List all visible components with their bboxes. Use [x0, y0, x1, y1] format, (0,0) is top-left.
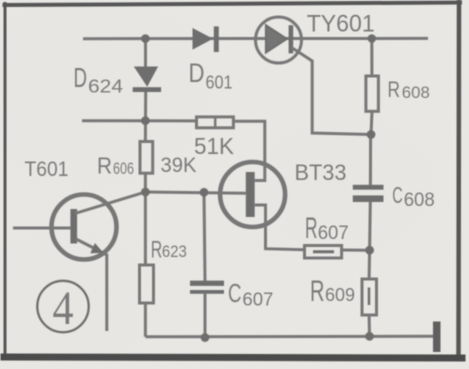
label R609 [310, 275, 355, 308]
figure number 4 [37, 281, 88, 335]
svg-text:C: C [228, 280, 242, 308]
svg-text:T601: T601 [25, 158, 69, 181]
label R608 [388, 77, 430, 102]
wire bottom rail [145, 335, 433, 339]
transistor T601 [13, 192, 145, 331]
resistor R608 [366, 39, 379, 135]
svg-text:606: 606 [113, 160, 134, 178]
resistor 51K [197, 117, 234, 128]
wire 51K to BT33 base2 [233, 121, 264, 180]
svg-text:R: R [388, 77, 401, 102]
capacitor C608 [353, 135, 384, 251]
resistor R606 [140, 121, 153, 192]
svg-text:624: 624 [88, 77, 123, 97]
svg-text:D: D [189, 58, 205, 88]
resistor R607 [305, 246, 370, 259]
resistor R623 [140, 192, 154, 337]
svg-text:51K: 51K [194, 133, 235, 159]
svg-text:608: 608 [404, 190, 435, 211]
label R606 [97, 153, 134, 179]
thyristor TY601 [256, 17, 302, 63]
wire top rail [83, 37, 428, 40]
node collector/R606/R623 [141, 188, 150, 197]
svg-text:39K: 39K [161, 154, 197, 177]
terminal bar [433, 322, 441, 353]
node emitter/C607 [200, 188, 209, 197]
svg-text:607: 607 [318, 223, 349, 244]
transistor BT33 [220, 162, 304, 250]
svg-text:R: R [310, 275, 325, 308]
svg-text:4: 4 [53, 282, 74, 335]
node mid D624/R606 [141, 116, 150, 125]
svg-text:609: 609 [325, 285, 355, 305]
wire D624 branch [144, 39, 147, 121]
capacitor C607 [190, 192, 224, 337]
label D601 [189, 58, 233, 93]
diode D601 [193, 26, 219, 52]
wire collector rail [145, 192, 245, 193]
label R623 [151, 237, 187, 264]
svg-text:D: D [74, 62, 88, 93]
svg-text:601: 601 [206, 73, 233, 93]
node R607/C608/R609 [365, 246, 374, 255]
node gate/R608/C608 [367, 130, 376, 139]
label R607 [305, 212, 349, 245]
wire TY601 gate run [292, 48, 372, 135]
svg-text:R: R [97, 153, 112, 179]
wire mid-left rail [82, 119, 197, 122]
node bottom C607 [201, 333, 210, 342]
label C608 [392, 182, 434, 211]
svg-text:607: 607 [242, 290, 273, 310]
resistor R609 [362, 250, 377, 336]
diode D624 [133, 67, 161, 93]
node bottom R609 [365, 332, 374, 341]
label D624 [74, 62, 124, 97]
svg-text:623: 623 [162, 242, 187, 261]
svg-text:R: R [151, 237, 163, 264]
svg-text:R: R [305, 212, 318, 245]
label C607 [228, 280, 273, 310]
svg-text:C: C [392, 182, 403, 208]
node top D624 [141, 34, 150, 43]
node top R608 [368, 34, 377, 43]
svg-text:608: 608 [402, 84, 430, 102]
svg-text:BT33: BT33 [295, 160, 347, 185]
svg-text:TY601: TY601 [307, 11, 375, 38]
